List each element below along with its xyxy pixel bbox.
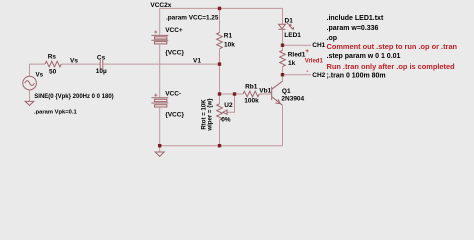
- svg-text:Rled1: Rled1: [288, 51, 306, 58]
- svg-text:Rs: Rs: [48, 54, 57, 61]
- svg-text:V1: V1: [193, 57, 201, 64]
- resistor Rs: [45, 61, 61, 67]
- node pot bottom: [218, 144, 221, 147]
- wire source bottom to ground: [29, 90, 31, 102]
- node gnd rail: [158, 144, 161, 147]
- svg-text:100k: 100k: [244, 98, 259, 105]
- svg-text:Vb1: Vb1: [259, 87, 271, 94]
- svg-text:{VCC}: {VCC}: [165, 111, 184, 118]
- voltage source Vs: [23, 76, 37, 90]
- battery VCC-: [151, 94, 168, 107]
- wire Rb1 to Q1 base: [259, 93, 271, 95]
- svg-text:1k: 1k: [288, 60, 296, 67]
- svg-text:Q1: Q1: [282, 88, 291, 95]
- node CH1: [281, 44, 284, 47]
- svg-text:{VCC}: {VCC}: [165, 49, 184, 56]
- transistor Q1: [272, 75, 283, 146]
- ground bottom: [155, 146, 164, 157]
- pot wiper arrow: [223, 94, 235, 114]
- svg-text:D1: D1: [285, 17, 294, 24]
- svg-text:wiper = {w}: wiper = {w}: [206, 98, 213, 132]
- svg-text:0%: 0%: [221, 117, 231, 124]
- node base left: [218, 92, 221, 95]
- wire rail corner down to D1: [282, 8, 284, 24]
- svg-text:10k: 10k: [224, 41, 235, 48]
- svg-text:U2: U2: [224, 102, 233, 109]
- svg-text:VCC+: VCC+: [165, 27, 183, 34]
- svg-text:Cs: Cs: [97, 55, 106, 62]
- svg-text:.include LED1.txt: .include LED1.txt: [327, 15, 384, 22]
- resistor R1: [217, 8, 223, 64]
- svg-text:CH2: CH2: [312, 72, 325, 79]
- svg-text:VCC2x: VCC2x: [150, 2, 171, 9]
- junction dots: [158, 7, 284, 148]
- svg-text:.param VCC=1.25: .param VCC=1.25: [166, 14, 219, 21]
- svg-text:Vs: Vs: [70, 57, 78, 64]
- wire CH1: [283, 44, 312, 46]
- svg-text:.op: .op: [327, 35, 338, 42]
- wire source top to Rs: [30, 64, 46, 76]
- svg-text:SINE(0 {Vpk} 200Hz 0 0 180): SINE(0 {Vpk} 200Hz 0 0 180): [34, 94, 113, 100]
- wire base row: junction to Rb1: [220, 93, 244, 95]
- svg-text:-: -: [306, 68, 308, 75]
- top rail VCC2x: [160, 8, 283, 35]
- battery VCC+: [151, 31, 168, 44]
- capacitor Cs: [99, 60, 101, 69]
- svg-text:2N3904: 2N3904: [281, 96, 304, 103]
- svg-text:R1: R1: [224, 33, 233, 40]
- node top rail R1: [218, 7, 221, 10]
- wire Rs to Cs: [61, 63, 100, 65]
- svg-text:Vrled1: Vrled1: [305, 58, 324, 64]
- svg-text:Comment out .step to run .op o: Comment out .step to run .op or .tran: [327, 42, 458, 51]
- wire D1 to CH1 node: [282, 29, 284, 45]
- svg-text:50: 50: [49, 68, 57, 75]
- svg-text:10µ: 10µ: [96, 68, 107, 75]
- wire CH2: [283, 74, 312, 76]
- svg-text:+: +: [305, 48, 309, 55]
- diode D1 LED: [279, 23, 294, 29]
- svg-text:Rb1: Rb1: [245, 84, 258, 91]
- svg-text:;.tran 0 100m 80m: ;.tran 0 100m 80m: [327, 72, 386, 79]
- svg-text:LED1: LED1: [284, 32, 301, 39]
- svg-text:.param Vpk=0.1: .param Vpk=0.1: [34, 109, 77, 115]
- potentiometer U2 body: [217, 94, 223, 146]
- wire VCC- bottom to bottom rail: [159, 107, 161, 146]
- ground: [25, 101, 34, 105]
- node CH2: [281, 73, 284, 76]
- resistor Rb1: [243, 91, 259, 97]
- node wiper: [233, 92, 236, 95]
- svg-text:CH1: CH1: [312, 42, 325, 49]
- wire VCC+ bottom to VCC- top (crosses signal wire): [159, 44, 161, 98]
- svg-text:.step param w 0 1 0.01: .step param w 0 1 0.01: [327, 53, 401, 60]
- svg-text:Vs: Vs: [36, 72, 44, 79]
- svg-text:VCC-: VCC-: [165, 91, 181, 98]
- wire Cs to node V1: [103, 63, 220, 65]
- svg-text:.param w=0.336: .param w=0.336: [327, 25, 379, 32]
- svg-text:Run .tran only after .op is co: Run .tran only after .op is completed: [327, 62, 456, 71]
- wire V1 node down to base row: [219, 64, 221, 94]
- resistor Rled1: [280, 45, 286, 74]
- bottom rail: [160, 145, 283, 147]
- node V1: [218, 62, 221, 65]
